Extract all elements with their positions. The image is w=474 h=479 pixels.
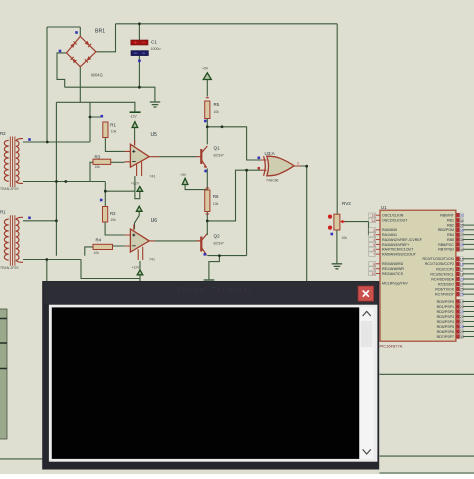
svg-text:RD5/PSP5: RD5/PSP5 (437, 325, 454, 329)
svg-text:RD2/PSP2: RD2/PSP2 (437, 310, 454, 314)
pin 7 RA5/AN4/SS/C2OUT (369, 252, 417, 257)
wire U6 V+ diagonal from +12V arrow (135, 211, 140, 229)
wire right of window bottom edge (380, 472, 474, 474)
wire TR1 top net down to R4 (85, 247, 93, 256)
svg-text:741: 741 (150, 175, 156, 179)
wire RV2 wiper to U1 RA0/RA1 (344, 222, 372, 235)
svg-text:W04G: W04G (91, 73, 103, 78)
svg-text:6: 6 (373, 248, 375, 252)
svg-text:R4: R4 (96, 238, 102, 243)
svg-text:35: 35 (460, 224, 464, 228)
pin 1 MCLR/Vpp/THV (369, 281, 409, 286)
left edge component strip (0, 309, 7, 439)
svg-text:R2: R2 (110, 211, 116, 216)
svg-text:10k: 10k (110, 218, 116, 222)
transformer TR1 (0, 210, 23, 271)
power terminal +12V below U6 (137, 270, 143, 275)
svg-text:26: 26 (460, 293, 464, 297)
resistor R5 10k (205, 101, 210, 119)
pin 5 RA3/AN3/VREF+ (369, 242, 410, 247)
svg-text:23: 23 (460, 278, 464, 282)
wire TR2 secondary top (23, 141, 90, 143)
wire BR1 left vertex jog down to mid rail (57, 53, 67, 87)
capacitor C1 1000u (131, 40, 161, 56)
svg-text:5: 5 (373, 243, 375, 247)
svg-text:RB2: RB2 (447, 224, 454, 228)
pin 2 RA0/AN0 (369, 228, 397, 233)
pin 19 RD0/PSP0 (437, 299, 474, 304)
diode D4 of BR1 (85, 56, 92, 62)
svg-text:RC3/SCK/SCL: RC3/SCK/SCL (430, 272, 454, 276)
wire R2 bottom to U6 +input (105, 222, 125, 235)
svg-text:40: 40 (460, 248, 464, 252)
wire collector node right to XOR input1 (207, 127, 260, 160)
wire Q2 emitter to ground (209, 256, 220, 280)
svg-text:3: 3 (373, 233, 375, 237)
svg-text:R2: R2 (0, 131, 6, 136)
svg-text:+12V: +12V (132, 266, 141, 270)
pin 6 RA4/T0CKI/C1OUT (369, 247, 414, 252)
svg-text:RD7/PSP7: RD7/PSP7 (437, 335, 454, 339)
pin 24 RC5/SDO (438, 282, 474, 287)
pin 20 RD1/PSP1 (437, 304, 474, 309)
node RV2 bottom pin (331, 233, 334, 236)
svg-text:RC5/SDO: RC5/SDO (438, 283, 454, 287)
potentiometer RV2 (328, 201, 351, 240)
svg-text:24: 24 (460, 283, 464, 287)
svg-text:8: 8 (373, 262, 375, 266)
svg-text:9: 9 (373, 267, 375, 271)
node Q1 emitter pin (204, 170, 207, 173)
node TR1 bottom drop (45, 258, 48, 261)
svg-text:RB0/INT: RB0/INT (440, 214, 455, 218)
svg-text:10k: 10k (111, 130, 117, 134)
svg-text:39: 39 (460, 243, 464, 247)
wire Q1 emitter down to R6 (206, 169, 208, 191)
svg-text:RB1: RB1 (447, 219, 454, 223)
wire R3 left branch (90, 162, 93, 181)
svg-text:RA5/AN4/SS/C2OUT: RA5/AN4/SS/C2OUT (382, 253, 417, 257)
svg-text:33: 33 (460, 214, 464, 218)
svg-text:RA1/AN1: RA1/AN1 (382, 233, 397, 237)
svg-text:MCLR/Vpp/THV: MCLR/Vpp/THV (382, 282, 408, 286)
node TR1 secondary top pin (28, 217, 31, 220)
node BR1 top pin (75, 31, 78, 34)
popup window virtual terminal (42, 281, 379, 470)
node Q1 collector (206, 125, 209, 128)
node R2 top pin (100, 199, 103, 202)
wire R5 bottom to collector node (206, 119, 208, 145)
wire right of window y=374 (380, 373, 474, 375)
svg-text:RA3/AN3/VREF+: RA3/AN3/VREF+ (382, 243, 410, 247)
svg-text:-12V: -12V (130, 115, 138, 119)
svg-text:25: 25 (460, 288, 464, 292)
svg-text:TRAN-2P2S: TRAN-2P2S (0, 266, 19, 270)
svg-text:RC4/SDI/SDA: RC4/SDI/SDA (431, 277, 454, 281)
svg-text:16: 16 (460, 262, 464, 266)
wire XOR input2 node down (246, 170, 248, 255)
svg-text:OSC1/CLKIN: OSC1/CLKIN (382, 214, 404, 218)
pin 36 RB3/PGM (438, 228, 474, 233)
svg-text:20: 20 (460, 305, 464, 309)
wire bottom-left behind window (0, 458, 43, 460)
power terminal +12V above U5 (132, 122, 138, 128)
node Q2 emitter tee (218, 254, 221, 257)
svg-text:34: 34 (460, 219, 464, 223)
svg-text:10: 10 (371, 272, 375, 276)
pin 3 RA1/AN1 (369, 233, 397, 238)
node TR2 top / long rail (46, 141, 49, 144)
IC U1 PIC16F877A (380, 210, 456, 341)
svg-text:PIC16F877A: PIC16F877A (380, 344, 403, 349)
svg-text:RC0/T1OSO/T1CKI: RC0/T1OSO/T1CKI (422, 257, 454, 261)
svg-text:3: 3 (297, 162, 299, 166)
svg-text:30: 30 (460, 335, 464, 339)
svg-text:R1: R1 (0, 210, 6, 215)
svg-text:RB7/PGD: RB7/PGD (438, 248, 454, 252)
pin 28 RD5/PSP5 (437, 324, 474, 329)
svg-text:RD6/PSP6: RD6/PSP6 (437, 330, 454, 334)
svg-text:10k: 10k (95, 165, 101, 169)
svg-text:RB6/PGC: RB6/PGC (438, 243, 454, 247)
svg-text:RV2: RV2 (342, 201, 351, 206)
pin 38 RB5 (447, 237, 474, 242)
node center tap B (64, 180, 67, 183)
wire +5V stem to R5 (206, 82, 208, 97)
pin 37 RB4 (447, 233, 474, 238)
power terminal +12V above U6 (136, 206, 142, 211)
svg-text:38: 38 (460, 238, 464, 242)
svg-text:R1: R1 (110, 123, 116, 128)
svg-text:+5V: +5V (180, 173, 187, 177)
svg-text:R6: R6 (213, 194, 219, 199)
wire U6 power stem to window (139, 277, 141, 282)
wire TR1 bottom drop to window (46, 260, 48, 282)
resistor R1 10k (103, 122, 108, 138)
svg-text:C1: C1 (151, 40, 157, 45)
svg-text:2: 2 (373, 228, 375, 232)
transformer TR2 (0, 131, 23, 191)
svg-text:10k: 10k (342, 236, 348, 240)
pin 8 RE0/AN5/RD (369, 262, 404, 267)
svg-text:22: 22 (460, 315, 464, 319)
svg-text:Virtual Terminal: Virtual Terminal (176, 285, 252, 294)
svg-text:19: 19 (460, 300, 464, 304)
pin 23 RC4/SDI/SDA (431, 277, 474, 282)
pin 14 OSC2/CLKOUT (369, 218, 408, 223)
svg-text:U6: U6 (151, 218, 158, 224)
svg-text:RC2/CCP1: RC2/CCP1 (436, 267, 454, 271)
wire BR1 bottom vertex down (79, 67, 81, 103)
svg-text:RD4/PSP4: RD4/PSP4 (437, 320, 454, 324)
svg-text:RD0/PSP0: RD0/PSP0 (437, 300, 454, 304)
svg-text:14: 14 (371, 219, 375, 223)
svg-text:17: 17 (460, 267, 464, 271)
transistor Q2 BC547 (197, 231, 224, 256)
wire R2 top branch (104, 182, 106, 207)
wire R6 node right and up to XOR input2 (207, 170, 260, 221)
svg-text:+5V: +5V (202, 67, 209, 71)
svg-text:R5: R5 (214, 102, 220, 107)
svg-text:741: 741 (149, 258, 155, 262)
node TR1 top junction (55, 219, 58, 222)
ground near C1 (150, 102, 160, 107)
wire RV2 bottom to ground (336, 230, 338, 264)
wire top rail to RV2 (116, 24, 338, 214)
resistor R2 10k (103, 207, 108, 223)
svg-text:10k: 10k (94, 251, 100, 255)
svg-text:RD3/PSP3: RD3/PSP3 (437, 315, 454, 319)
node XOR input1 pin (258, 157, 261, 160)
wire BR1 right vertex to top rail (96, 24, 116, 52)
diode D1 of BR1 (70, 41, 76, 48)
pin 34 RB1 (447, 218, 464, 223)
wire TR1 secondary top (23, 220, 56, 222)
node mystery y127 (221, 125, 224, 128)
node C1-ground rail junction (138, 86, 141, 89)
node BR1 left pin (59, 50, 62, 53)
resistor R4 10k (93, 244, 113, 249)
wire TR2 secondary bottom rail (23, 181, 105, 183)
node R6 bottom (206, 220, 209, 223)
diode D2 of BR1 (85, 41, 92, 47)
wire R4 right to U6 -input (113, 245, 125, 248)
wire TR1 bottom to lower-right (81, 260, 140, 279)
pin 18 RC3/SCK/SCL (430, 272, 474, 277)
svg-text:TRAN-2P2S: TRAN-2P2S (0, 187, 19, 191)
svg-text:BC547: BC547 (214, 154, 224, 158)
pin 27 RD4/PSP4 (437, 319, 474, 324)
svg-text:RE0/AN5/RD: RE0/AN5/RD (382, 262, 404, 266)
svg-text:RA0/AN0: RA0/AN0 (382, 228, 397, 232)
svg-text:RC7/RX/DT: RC7/RX/DT (435, 293, 455, 297)
node XOR output (305, 165, 308, 168)
pin 33 RB0/INT (440, 213, 464, 218)
wire y=102 branch (56, 102, 134, 111)
svg-text:RB4: RB4 (447, 233, 454, 237)
close button X (358, 286, 374, 301)
svg-text:13: 13 (371, 214, 375, 218)
pin 15 RC0/T1OSO/T1CKI (422, 257, 474, 262)
pin 39 RB6/PGC (438, 242, 474, 247)
node rail-C1 junction (138, 22, 141, 25)
svg-text:RA4/T0CKI/C1OUT: RA4/T0CKI/C1OUT (382, 248, 414, 252)
wire U5 output to Q1 base (159, 156, 197, 158)
svg-text:RC6/TX/CK: RC6/TX/CK (435, 288, 454, 292)
pin 35 RB2 (447, 223, 474, 228)
resistor R6 10k (205, 190, 210, 212)
pin 29 RD6/PSP6 (437, 329, 474, 334)
wire C1 stem (138, 24, 140, 87)
svg-text:7: 7 (373, 253, 375, 257)
node R5 bottom pin (204, 120, 207, 123)
svg-text:RE2/AN7/CS: RE2/AN7/CS (382, 272, 404, 276)
wire x=56 long vertical (55, 102, 57, 255)
svg-text:4: 4 (373, 238, 375, 242)
power bar -12V (130, 111, 141, 113)
node XOR in2 corner (245, 169, 248, 172)
pin 10 RE2/AN7/CS (369, 271, 404, 276)
pin 21 RD2/PSP2 (437, 309, 474, 314)
node center tap A (55, 180, 58, 183)
svg-text:U1: U1 (381, 205, 387, 210)
wire R3 right to U5 -input (111, 161, 125, 163)
power terminal +5V at Q1 emitter (182, 178, 188, 184)
scrollbar (360, 307, 374, 459)
svg-text:OSC2/CLKOUT: OSC2/CLKOUT (382, 219, 408, 223)
transistor Q1 BC547 (197, 146, 224, 169)
pin 25 RC6/TX/CK (435, 287, 474, 292)
wire mid rail y=87 with C1 tap (65, 87, 155, 102)
diode D3 of BR1 (70, 57, 76, 64)
svg-text:15: 15 (460, 257, 464, 261)
svg-text:U5: U5 (151, 132, 158, 138)
resistor R3 10k (93, 159, 111, 164)
node C1 bottom pin (138, 60, 141, 63)
svg-text:21: 21 (460, 310, 464, 314)
svg-text:37: 37 (460, 233, 464, 237)
wire U6 pin4 stem down to arrow (139, 261, 141, 271)
node R2 power jog (104, 190, 107, 193)
node XOR input2 pin (258, 167, 260, 169)
svg-text:27: 27 (460, 320, 464, 324)
svg-text:RC1/T1OSI/CCP2: RC1/T1OSI/CCP2 (425, 262, 454, 266)
pin 40 RB7/PGD (438, 247, 474, 252)
node R1 top pin (101, 115, 104, 118)
wire R1 bottom to op-amp U5 +input (105, 138, 124, 152)
terminal black screen (52, 307, 359, 459)
svg-text:18: 18 (460, 272, 464, 276)
power terminal +5V above R5 (203, 73, 211, 80)
node Q2 emitter pin (204, 253, 207, 256)
wire U6 output to Q2 base (155, 240, 197, 242)
XOR gate U3:A 74HC86 (261, 151, 302, 183)
svg-text:Q2: Q2 (214, 234, 221, 239)
svg-text:10k: 10k (213, 202, 219, 206)
pin 22 RD3/PSP3 (437, 314, 474, 319)
svg-text:RB3/PGM: RB3/PGM (438, 228, 454, 232)
svg-text:BR1: BR1 (95, 29, 105, 35)
pin 26 RC7/RX/DT (435, 292, 474, 297)
svg-text:+12V: +12V (131, 182, 140, 186)
svg-text:RB5: RB5 (447, 238, 454, 242)
ground below RV2 (332, 264, 342, 269)
op-amp U6 741 (125, 218, 158, 262)
ground at Q2 emitter (partially hidden) (204, 279, 215, 281)
svg-text:R3: R3 (95, 155, 101, 160)
wire R2 node to op power jog (105, 190, 135, 192)
wire right of window y=456 (380, 455, 474, 457)
node TR2 secondary top pin (28, 138, 31, 141)
svg-text:36: 36 (460, 228, 464, 232)
svg-text:29: 29 (460, 330, 464, 334)
wire top-left rail to BR1 (47, 27, 80, 143)
svg-text:10k: 10k (214, 110, 220, 114)
pin 9 RE1/AN6/WR (369, 267, 405, 272)
pin 17 RC2/CCP1 (436, 267, 474, 272)
svg-text:RE1/AN6/WR: RE1/AN6/WR (382, 267, 404, 271)
svg-text:RD1/PSP1: RD1/PSP1 (437, 305, 454, 309)
bridge rectifier BR1 (67, 37, 96, 67)
wire R6 bottom node (206, 212, 208, 232)
wire U5 V- pin jog to +12V arrow (135, 176, 140, 199)
terminal client frame (49, 305, 378, 462)
wire R1 top feed (90, 102, 101, 142)
svg-text:U3:A: U3:A (265, 151, 276, 156)
svg-text:BC547: BC547 (214, 242, 224, 246)
svg-text:Q1: Q1 (214, 146, 221, 151)
pin 30 RD7/PSP7 (437, 334, 474, 339)
pin 4 RA2/AN2/VREF-/CVREF (369, 237, 423, 242)
wire TR1 secondary bottom (23, 259, 81, 261)
svg-text:RA2/AN2/VREF-/CVREF: RA2/AN2/VREF-/CVREF (382, 238, 423, 242)
wire +5V arrow to emitter node (185, 185, 207, 190)
svg-text:74HC86: 74HC86 (266, 179, 279, 183)
wire Q2 emitter rail (207, 255, 246, 257)
wire BR1 top vertex (79, 27, 81, 37)
pin 16 RC1/T1OSI/CCP2 (425, 262, 474, 267)
power terminal +12V below U5 (137, 187, 143, 192)
svg-text:28: 28 (460, 325, 464, 329)
pin 13 OSC1/CLKIN (369, 213, 404, 218)
wire U5 V+ pin stem (134, 128, 136, 146)
wire XOR output down to window (301, 166, 307, 282)
node R1 feed corner (89, 116, 92, 119)
op-amp U5 741 (125, 132, 159, 179)
svg-text:1000u: 1000u (151, 47, 161, 51)
